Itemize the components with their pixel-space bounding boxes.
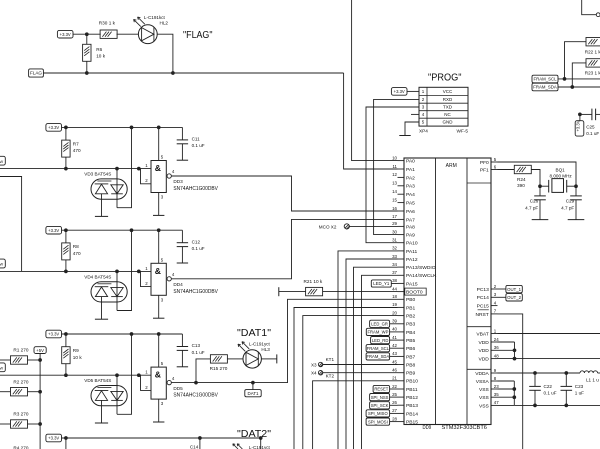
svg-text:4.7 pF: 4.7 pF <box>525 206 538 211</box>
svg-text:25: 25 <box>392 392 397 397</box>
inductor L1 <box>580 371 598 373</box>
svg-text:4.7 pF: 4.7 pF <box>561 206 574 211</box>
ground (cap) <box>177 366 188 368</box>
svg-text:PA9: PA9 <box>406 233 415 239</box>
capacitor C11 <box>181 127 183 139</box>
net label FRAM_SCL <box>532 75 558 83</box>
wire R24 to crystal <box>531 170 540 187</box>
wire R1 <box>0 359 11 361</box>
svg-text:L-C191yct: L-C191yct <box>249 342 271 347</box>
diode pair VD3 BAT54S <box>91 179 127 199</box>
junction res/row <box>64 167 68 171</box>
svg-text:R8: R8 <box>73 244 79 249</box>
svg-text:C29: C29 <box>566 199 575 204</box>
svg-text:PB0: PB0 <box>406 297 416 303</box>
wire bottom to PB1 <box>294 308 398 449</box>
svg-text:VBAT: VBAT <box>476 331 488 337</box>
svg-text:0.1 uF: 0.1 uF <box>192 350 205 355</box>
contact bar (R21) <box>278 287 280 296</box>
svg-text:PB13: PB13 <box>406 403 418 409</box>
svg-text:PA1: PA1 <box>406 167 415 173</box>
wire +5V rail <box>39 354 41 449</box>
junction gate input <box>137 270 141 274</box>
wire VDD rail <box>498 358 600 360</box>
junction clamp <box>115 167 119 171</box>
svg-text:VD5 BAT54S: VD5 BAT54S <box>84 378 111 383</box>
svg-text:PA7: PA7 <box>406 217 415 223</box>
svg-text:SN74AHC1G00DBV: SN74AHC1G00DBV <box>173 186 218 192</box>
svg-text:OUT_1: OUT_1 <box>507 287 521 292</box>
svg-text:0.1 uF: 0.1 uF <box>192 143 205 148</box>
ground (cap) <box>177 159 188 161</box>
wire bottom to PB10 <box>313 381 398 449</box>
net label OUT_2 <box>506 294 522 301</box>
resistor R1 <box>11 356 28 364</box>
wire X2 to PA8 <box>349 225 397 227</box>
junction row5 b <box>198 436 202 440</box>
svg-text:XP4: XP4 <box>419 129 428 134</box>
junction pin5 rail <box>157 332 161 336</box>
svg-text:GND: GND <box>443 120 454 125</box>
diode pair VD4 BAT54S <box>91 282 127 302</box>
svg-text:R15 270: R15 270 <box>210 366 228 371</box>
svg-text:ARM: ARM <box>446 163 457 169</box>
wire bottom to PA13 <box>354 267 398 449</box>
svg-text:+3.3V: +3.3V <box>576 120 581 131</box>
wire clamp to rail <box>117 334 132 414</box>
net stub (left edge row 3) <box>0 259 5 268</box>
svg-text:SN74AHC1G00DBV: SN74AHC1G00DBV <box>173 393 218 399</box>
wire bar to R21 <box>279 291 306 293</box>
net label LED_GR <box>370 320 390 327</box>
ground (gate) <box>153 317 164 319</box>
junction crystal right <box>574 184 578 188</box>
junction row5 a <box>64 436 68 440</box>
NRST overline <box>478 309 489 311</box>
svg-text:FRAM_SCL: FRAM_SCL <box>367 346 390 351</box>
svg-text:8.000 MHz: 8.000 MHz <box>550 174 573 179</box>
wire bottom to PA11 <box>338 251 398 449</box>
wire bottom to PA12 <box>346 259 398 449</box>
svg-text:390: 390 <box>517 183 525 188</box>
svg-text:+3.3V: +3.3V <box>60 32 71 37</box>
net stub (left edge row 2) <box>0 156 5 165</box>
wire PC13 stub <box>498 288 506 290</box>
mcu DD9 body <box>404 158 491 425</box>
svg-text:PA5: PA5 <box>406 201 415 207</box>
wire top edge to PA0 <box>352 0 398 161</box>
ground (PROG) <box>399 135 410 137</box>
svg-text:FLAG: FLAG <box>30 71 42 76</box>
net label LED_Y1 <box>371 280 391 287</box>
svg-text:&: & <box>155 266 161 276</box>
ground (clamp) <box>95 215 108 217</box>
wire DAT1 stub <box>252 383 254 390</box>
resistor R21 <box>306 287 323 295</box>
wire gate pin3 (gnd) <box>158 399 160 422</box>
power +3.3V (row 5) <box>46 434 62 442</box>
wire VBAT <box>498 333 600 335</box>
net label SPI_SCK <box>370 402 390 409</box>
svg-text:0.1 uF: 0.1 uF <box>192 246 205 251</box>
wire VDD join <box>498 341 515 343</box>
svg-text:VCC: VCC <box>443 89 453 94</box>
svg-text:OUT_2: OUT_2 <box>507 295 521 300</box>
capacitor C25 <box>580 113 592 115</box>
svg-text:23: 23 <box>494 384 499 389</box>
svg-text:DAT1: DAT1 <box>248 391 259 396</box>
junction res/row <box>64 270 68 274</box>
svg-text:&: & <box>155 370 161 380</box>
svg-text:PB14: PB14 <box>406 411 418 417</box>
svg-text:+3.3V: +3.3V <box>48 436 59 441</box>
wire gate pin2 loop <box>139 168 141 170</box>
svg-text:&: & <box>155 163 161 173</box>
junction R6 bottom <box>85 71 89 75</box>
junction VSS 23 <box>512 387 516 391</box>
mcu left pins <box>392 155 437 425</box>
svg-text:C25: C25 <box>586 125 595 130</box>
capacitor C26 <box>539 186 541 196</box>
svg-text:X3: X3 <box>311 363 317 368</box>
junction clamp <box>115 373 119 377</box>
svg-text:W: W <box>0 366 3 371</box>
wire +3.3V to R30 <box>73 33 101 35</box>
svg-text:1 uF: 1 uF <box>575 390 584 395</box>
svg-text:PB12: PB12 <box>406 395 418 401</box>
svg-text:PA11: PA11 <box>406 249 418 255</box>
svg-text:PC14: PC14 <box>477 295 490 301</box>
svg-text:PB11: PB11 <box>406 387 418 393</box>
ground (clamp) <box>95 318 108 320</box>
svg-text:FRAM_WP: FRAM_WP <box>367 330 388 335</box>
wire TXD to PA10 <box>366 107 419 243</box>
junction crystal left <box>538 184 542 188</box>
svg-text:KT2: KT2 <box>326 374 335 379</box>
junction C23 top <box>564 371 568 375</box>
ground (gate) <box>153 214 164 216</box>
svg-text:C12: C12 <box>192 239 201 244</box>
svg-text:PB4: PB4 <box>406 330 416 336</box>
svg-text:STM32F303CBT6: STM32F303CBT6 <box>442 425 488 431</box>
svg-text:SPI_MISO: SPI_MISO <box>368 411 389 416</box>
svg-text:C13: C13 <box>192 343 201 348</box>
svg-text:39: 39 <box>392 319 397 324</box>
wire R2 <box>0 391 11 393</box>
svg-text:PF1: PF1 <box>480 167 489 173</box>
svg-text:PC13: PC13 <box>477 287 490 293</box>
crystal BQ1 <box>540 185 549 187</box>
svg-text:47: 47 <box>494 400 499 405</box>
capacitor C12 <box>181 230 183 243</box>
wire diode to ground <box>101 297 103 320</box>
svg-text:PA14/SWCLK: PA14/SWCLK <box>406 273 437 279</box>
wire clamp to rail <box>117 127 132 207</box>
svg-text:PB7: PB7 <box>406 354 416 360</box>
junction VDD 36 <box>513 348 517 352</box>
svg-text:FRAM_SDA: FRAM_SDA <box>366 354 389 359</box>
svg-text:HL2: HL2 <box>160 20 169 25</box>
wire diode to ground <box>101 194 103 217</box>
wire VDDA <box>498 372 581 374</box>
svg-text:470: 470 <box>73 251 81 256</box>
svg-text:12: 12 <box>392 172 397 177</box>
wire FRAM_SCL <box>558 78 600 80</box>
svg-text:"PROG": "PROG" <box>428 72 462 84</box>
nand gate DD4 <box>151 263 166 295</box>
svg-text:PA4: PA4 <box>406 192 415 198</box>
svg-text:HL3: HL3 <box>261 347 270 352</box>
svg-text:L-C191yct: L-C191yct <box>249 445 271 449</box>
svg-text:48: 48 <box>494 353 499 358</box>
resistor R3 <box>11 420 28 428</box>
svg-text:KT1: KT1 <box>326 357 335 362</box>
resistor R6 <box>83 44 91 61</box>
svg-text:16: 16 <box>392 206 397 211</box>
wire PF1 to R24 <box>498 169 515 171</box>
test point X2 <box>344 224 349 229</box>
junction VDD 48 <box>513 357 517 361</box>
svg-text:BQ1: BQ1 <box>556 168 566 173</box>
junction C23 bottom <box>564 404 568 408</box>
ground (C29) <box>568 219 585 221</box>
junction HL2 drop <box>171 71 175 75</box>
junction clamp rail <box>130 126 134 130</box>
svg-text:R6: R6 <box>96 47 102 52</box>
svg-text:0.1 uF: 0.1 uF <box>586 131 599 136</box>
net label FRAM_SDA <box>366 353 390 360</box>
svg-text:10: 10 <box>392 155 397 160</box>
wire bottom to PB2 <box>303 316 398 449</box>
wire clamp center <box>116 271 118 310</box>
wire left jog to row 3 <box>0 177 22 272</box>
svg-text:L1 1 u: L1 1 u <box>586 378 599 383</box>
svg-text:"FLAG": "FLAG" <box>183 29 213 41</box>
svg-text:DD3: DD3 <box>173 179 183 184</box>
svg-text:R30 1 k: R30 1 k <box>99 20 116 25</box>
svg-text:PA0: PA0 <box>406 159 415 165</box>
wire FLAG to PA1 <box>344 73 398 169</box>
net label FRAM_WP <box>366 328 389 335</box>
wire +3.3V to VCC <box>407 90 419 92</box>
svg-text:VDDA: VDDA <box>475 371 489 377</box>
power +3.3V (flag row) <box>57 30 73 38</box>
junction rail/res <box>64 228 68 232</box>
svg-text:+3.3V: +3.3V <box>48 125 59 130</box>
resistor R22 <box>586 38 600 46</box>
wire R22 to FRAM_SCL <box>565 42 587 79</box>
contact bar (HL3) <box>276 354 278 363</box>
wire clamp to rail <box>117 230 132 310</box>
svg-text:TXD: TXD <box>443 105 453 110</box>
svg-text:W: W <box>0 159 3 164</box>
svg-text:R23 1 k: R23 1 k <box>585 71 600 76</box>
wire +3.3V rail row 3 <box>62 229 183 231</box>
junction rail/res <box>64 126 68 130</box>
svg-text:C11: C11 <box>192 137 201 142</box>
net label SPI_NSS <box>370 394 390 401</box>
LED HL2 <box>138 25 157 44</box>
svg-text:LED_RD: LED_RD <box>372 338 389 343</box>
resistor R2 <box>11 388 28 396</box>
connector XP4 body <box>419 87 468 126</box>
BOOT0 frame <box>405 288 426 295</box>
resistor R24 <box>514 165 531 173</box>
svg-text:0.1 uF: 0.1 uF <box>544 390 557 395</box>
capacitor C23 <box>565 373 567 386</box>
svg-text:C26: C26 <box>530 199 539 204</box>
wire gate pin2 loop <box>139 270 141 272</box>
diode pair VD5 BAT54S <box>91 386 127 406</box>
junction R6 top <box>85 32 89 36</box>
svg-text:PB10: PB10 <box>406 379 418 385</box>
junction FRAM_SCL <box>563 77 567 81</box>
svg-text:10 k: 10 k <box>73 355 83 360</box>
svg-text:LED_GR: LED_GR <box>371 322 388 327</box>
svg-text:PB5: PB5 <box>406 338 416 344</box>
wire row 4 <box>0 374 151 376</box>
svg-text:PA8: PA8 <box>406 224 415 230</box>
svg-text:DD9: DD9 <box>423 425 432 431</box>
svg-text:24: 24 <box>494 337 499 342</box>
net label RESET <box>373 385 390 392</box>
wire PF0 to crystal <box>498 162 577 186</box>
capacitor C29 <box>575 186 577 196</box>
nand gate DD5 <box>151 367 166 399</box>
svg-text:R9: R9 <box>73 348 79 353</box>
wire PC14 stub <box>498 296 506 298</box>
junction C22 top <box>533 371 537 375</box>
svg-text:17: 17 <box>392 214 397 219</box>
svg-text:FRAM_SCL: FRAM_SCL <box>534 77 558 82</box>
resistor R15 <box>210 355 227 363</box>
svg-text:SN74AHC1G00DBV: SN74AHC1G00DBV <box>173 289 218 295</box>
resistor R7 <box>62 140 70 157</box>
ground (clamp) <box>95 422 108 424</box>
junction rail/res <box>64 332 68 336</box>
svg-text:R21 10 k: R21 10 k <box>304 279 323 284</box>
svg-text:SPI_NSS: SPI_NSS <box>371 395 389 400</box>
junction gate input <box>137 167 141 171</box>
wire R8 stubs <box>65 230 67 243</box>
wire +3.3V rail row 2 <box>62 126 183 128</box>
svg-text:DD5: DD5 <box>173 386 183 391</box>
test point X4 <box>318 371 322 375</box>
svg-text:38: 38 <box>392 278 397 283</box>
wire clamp center <box>116 375 118 414</box>
svg-text:C23: C23 <box>575 384 584 389</box>
wire DD5 out to PB0 <box>171 299 397 382</box>
wire GND pin <box>405 122 419 136</box>
svg-text:LED_Y1: LED_Y1 <box>373 281 390 286</box>
junction clamp <box>115 270 119 274</box>
svg-text:PB9: PB9 <box>406 371 416 377</box>
svg-text:36: 36 <box>494 345 499 350</box>
wire HL2 to FLAG net <box>157 34 173 73</box>
svg-text:10 k: 10 k <box>96 54 106 59</box>
svg-text:470: 470 <box>73 148 81 153</box>
svg-text:BOOT0: BOOT0 <box>406 290 423 296</box>
mcu right pins <box>475 157 499 409</box>
svg-text:34: 34 <box>392 262 397 267</box>
wire R15 to HL3 <box>227 358 242 360</box>
svg-text:FRAM_SDA: FRAM_SDA <box>533 85 557 90</box>
wire X3 to PB8 <box>323 364 398 366</box>
junction res/row <box>64 373 68 377</box>
svg-text:PC15: PC15 <box>477 304 490 310</box>
svg-text:R7: R7 <box>73 141 79 146</box>
wire FLAG row <box>43 72 343 74</box>
junction R2 <box>38 390 42 394</box>
net label DAT1 <box>245 390 261 397</box>
net label FLAG <box>29 69 44 77</box>
svg-text:PA6: PA6 <box>406 209 415 215</box>
svg-text:+5V: +5V <box>36 348 44 353</box>
svg-text:PA12: PA12 <box>406 257 418 263</box>
power +3.3V (row 4) <box>46 330 62 338</box>
junction pin5 rail <box>157 228 161 232</box>
svg-text:PA2: PA2 <box>406 175 415 181</box>
wire R23 to FRAM_SDA <box>572 63 586 87</box>
svg-text:31: 31 <box>392 238 397 243</box>
svg-text:PB3: PB3 <box>406 322 416 328</box>
power +5V <box>34 347 46 354</box>
svg-text:SPI_SCK: SPI_SCK <box>371 403 389 408</box>
gate output bubble pin4 <box>167 277 171 281</box>
wire LED_Y1 stub <box>391 283 397 285</box>
wire R7 stubs <box>65 127 67 140</box>
wire gate pin5 (vcc) <box>158 127 160 160</box>
test point X3 <box>318 362 322 366</box>
junction R15 branch <box>194 381 198 385</box>
svg-text:R1 270: R1 270 <box>13 348 29 353</box>
svg-text:MCO X2: MCO X2 <box>319 224 337 229</box>
svg-text:15: 15 <box>392 197 397 202</box>
svg-text:45: 45 <box>392 359 397 364</box>
svg-text:27: 27 <box>392 408 397 413</box>
net label FRAM_SDA <box>532 83 558 91</box>
capacitor C22 <box>534 373 536 386</box>
svg-text:PB1: PB1 <box>406 305 416 311</box>
svg-text:NRST: NRST <box>475 312 488 318</box>
wire R9 stubs <box>65 334 67 347</box>
capacitor C13 <box>181 334 183 347</box>
svg-text:28: 28 <box>392 416 397 421</box>
ground (gate) <box>153 421 164 423</box>
power +3.3V (row 2) <box>46 124 62 132</box>
svg-text:DD4: DD4 <box>173 282 183 287</box>
wire VSSA/VSS join <box>498 380 515 382</box>
svg-text:R3 270: R3 270 <box>13 412 29 417</box>
wire top-right corner <box>582 0 597 15</box>
svg-text:13: 13 <box>392 181 397 186</box>
gate output bubble pin4 <box>167 174 171 178</box>
svg-text:42: 42 <box>392 343 397 348</box>
junction clamp rail <box>130 332 134 336</box>
wire NRST down <box>498 314 523 449</box>
nand gate DD3 <box>151 161 166 193</box>
wire VSS rail <box>514 404 600 406</box>
wire row 3 <box>0 270 151 272</box>
svg-text:PA15: PA15 <box>406 281 418 287</box>
wire R3 <box>0 423 11 425</box>
svg-text:32: 32 <box>392 246 397 251</box>
net label SPI_MISO <box>366 410 390 417</box>
wire R30 to HL2 <box>117 33 139 35</box>
svg-text:X4: X4 <box>311 371 317 376</box>
wire X4 to PB9 <box>323 372 398 374</box>
junction pin5 rail <box>157 126 161 130</box>
